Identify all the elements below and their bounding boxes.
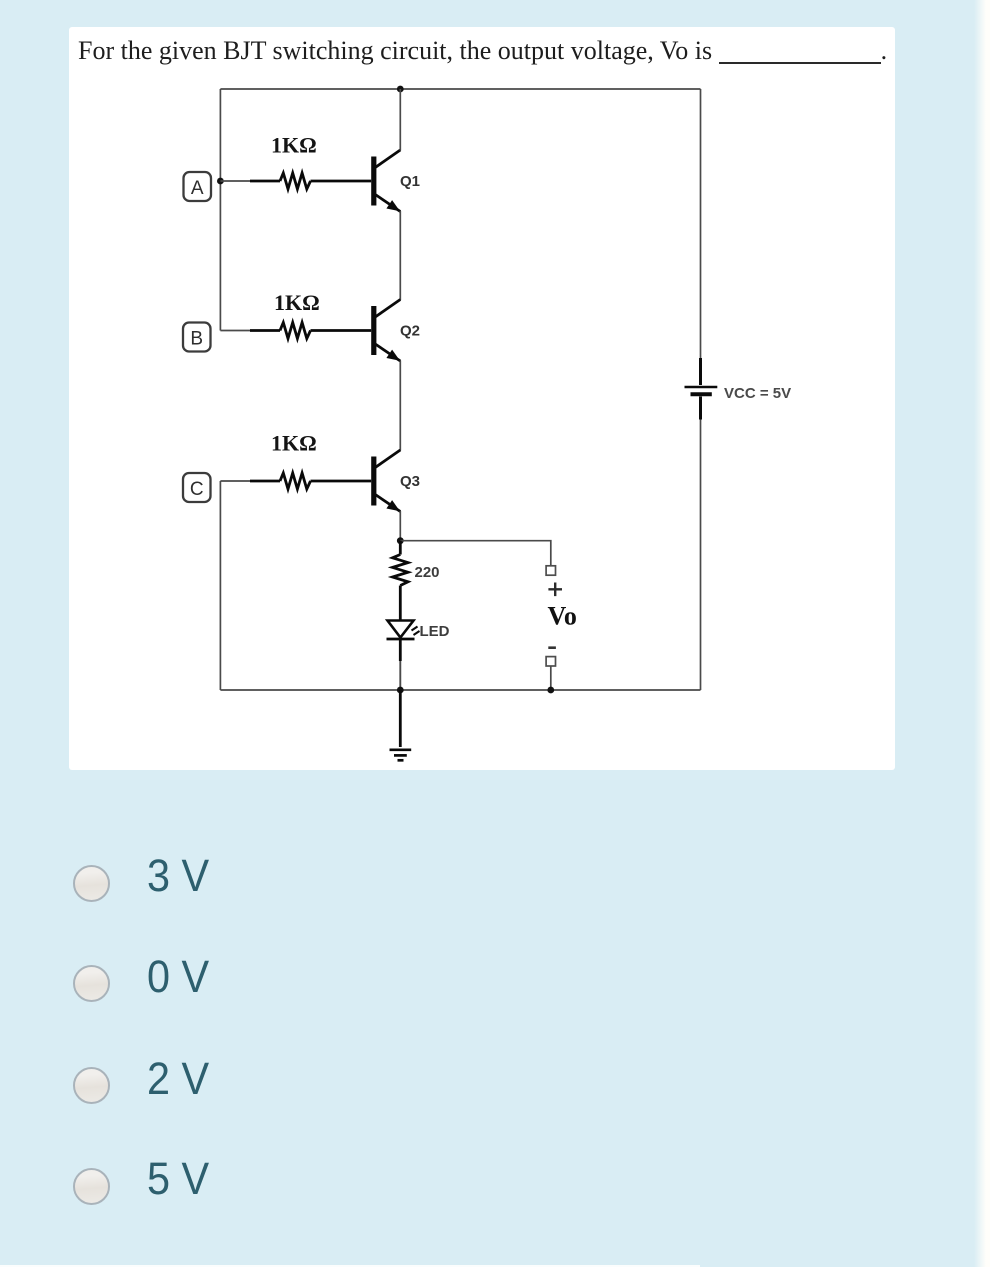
svg-text:1KΩ: 1KΩ — [274, 290, 320, 315]
wire: left vertical from node C row down to bottom rail — [219, 481, 221, 690]
svg-text:LED: LED — [420, 623, 450, 640]
svg-text:VCC = 5V: VCC = 5V — [724, 385, 791, 402]
transistor Q2 — [371, 300, 400, 362]
svg-text:Q3: Q3 — [400, 473, 420, 490]
LED D1 — [387, 621, 420, 691]
svg-text:B: B — [190, 329, 203, 350]
wire: Q1 collector vertical — [399, 89, 401, 151]
question text — [78, 36, 887, 66]
node C terminal box — [183, 473, 211, 502]
transistor Q3 — [371, 450, 400, 512]
white question panel — [69, 27, 895, 770]
option radio 3 — [73, 1067, 110, 1104]
node junction dot on top rail — [397, 86, 404, 93]
svg-text:1KΩ: 1KΩ — [271, 133, 317, 158]
node junction dot Vo column / bottom rail — [547, 687, 554, 694]
wire: Q2 emitter to Q3 collector — [399, 361, 401, 451]
svg-text:Q2: Q2 — [400, 323, 420, 340]
wire: Q1 emitter to Q2 collector — [399, 211, 401, 300]
node A junction dot — [217, 178, 224, 185]
svg-text:220: 220 — [415, 564, 440, 581]
wire: right vertical from top rail to battery — [700, 89, 702, 360]
ground — [390, 690, 412, 760]
option radio 1 — [73, 865, 110, 902]
node A terminal box — [184, 172, 212, 201]
Vo minus terminal square — [546, 657, 555, 666]
label + — [548, 583, 562, 597]
label minus — [548, 646, 556, 649]
Vo plus terminal square — [546, 566, 555, 575]
node junction dot LED column / bottom rail — [397, 687, 404, 694]
option text 0 V — [147, 954, 209, 999]
option text 5 V — [147, 1156, 209, 1201]
wire: left vertical from top rail down to node B row — [219, 89, 221, 331]
wire: output node to Vo plus terminal — [400, 541, 551, 565]
wire: bottom rail — [220, 689, 700, 691]
battery VCC — [685, 358, 718, 420]
svg-text:1KΩ: 1KΩ — [271, 431, 317, 456]
wire: top rail from left column to VCC column — [220, 88, 700, 90]
node junction dot at Q3 emitter / 220 resistor — [397, 537, 404, 544]
option text 2 V — [147, 1056, 209, 1101]
wire: Q3 emitter down to output node — [399, 511, 401, 541]
option text 3 V — [147, 853, 209, 898]
resistor R-A 1KΩ (base of Q1) — [220, 173, 371, 189]
wire: Vo minus terminal to bottom rail — [550, 666, 552, 690]
resistor 220 (vertical) — [393, 541, 409, 621]
bottom white edge — [0, 1265, 700, 1267]
wire: right vertical from battery to bottom rail — [700, 419, 702, 690]
node B terminal box — [183, 323, 211, 352]
resistor R-B 1KΩ (base of Q2) — [220, 323, 371, 339]
svg-text:Q1: Q1 — [400, 173, 420, 190]
svg-text:C: C — [190, 479, 204, 500]
svg-text:A: A — [191, 178, 204, 199]
right white strip — [974, 0, 990, 1267]
option radio 2 — [73, 965, 110, 1002]
option radio 4 — [73, 1168, 110, 1205]
transistor Q1 — [371, 150, 400, 212]
resistor R-C 1KΩ (base of Q3) — [220, 473, 371, 489]
svg-text:Vo: Vo — [548, 602, 577, 631]
